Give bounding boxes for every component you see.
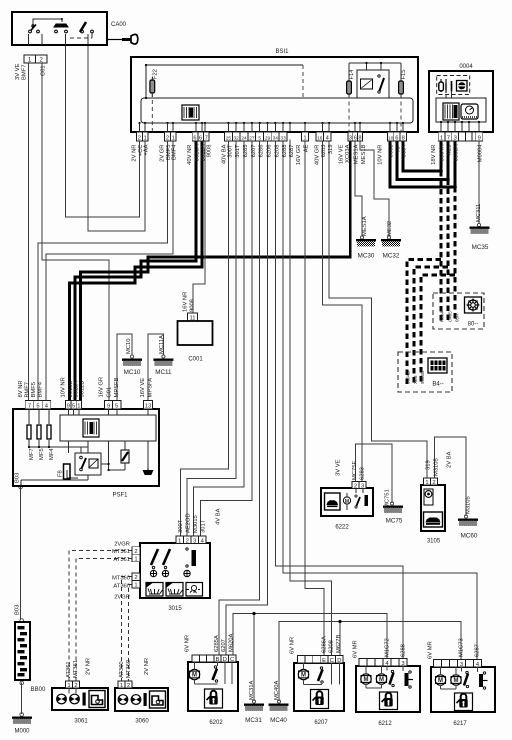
svg-text:80--: 80-- xyxy=(468,322,479,328)
svg-text:6202: 6202 xyxy=(209,720,223,726)
svg-text:2: 2 xyxy=(186,538,189,544)
svg-text:C01: C01 xyxy=(107,387,113,398)
svg-text:9005B: 9005B xyxy=(420,371,425,384)
svg-text:B03: B03 xyxy=(15,605,21,615)
svg-text:MC35: MC35 xyxy=(472,244,489,251)
svg-text:ME32: ME32 xyxy=(387,221,393,236)
svg-text:MT360: MT360 xyxy=(112,575,130,581)
svg-text:9005: 9005 xyxy=(389,145,395,158)
svg-text:M1C72: M1C72 xyxy=(385,638,391,657)
svg-text:6V NR: 6V NR xyxy=(185,635,191,652)
svg-text:9008: 9008 xyxy=(207,145,213,158)
svg-text:3105: 3105 xyxy=(427,539,441,545)
svg-text:10V NR: 10V NR xyxy=(378,145,384,165)
svg-text:27: 27 xyxy=(249,135,255,141)
svg-text:6222: 6222 xyxy=(335,525,349,531)
svg-text:7: 7 xyxy=(28,404,31,410)
svg-text:BMF4: BMF4 xyxy=(172,144,178,160)
svg-text:MT361: MT361 xyxy=(73,660,79,678)
svg-text:25: 25 xyxy=(226,135,232,141)
svg-text:34: 34 xyxy=(273,135,279,141)
svg-text:MF4: MF4 xyxy=(49,448,55,460)
svg-text:F22: F22 xyxy=(153,69,159,79)
svg-text:3: 3 xyxy=(193,538,196,544)
svg-text:3: 3 xyxy=(460,662,463,668)
svg-text:F14: F14 xyxy=(349,69,355,80)
svg-text:2VGR: 2VGR xyxy=(114,595,130,601)
svg-text:F15: F15 xyxy=(401,70,407,80)
svg-text:MC311: MC311 xyxy=(476,204,482,222)
svg-text:7: 7 xyxy=(205,135,208,141)
svg-text:6286A: 6286A xyxy=(322,636,328,653)
svg-text:1: 1 xyxy=(303,135,306,141)
svg-text:16V VE: 16V VE xyxy=(339,144,345,164)
svg-text:6288: 6288 xyxy=(282,145,288,158)
svg-text:6: 6 xyxy=(354,135,357,141)
svg-text:3: 3 xyxy=(401,661,404,667)
svg-text:6212: 6212 xyxy=(378,721,392,727)
svg-text:6208: 6208 xyxy=(274,145,280,158)
svg-text:MF5: MF5 xyxy=(39,448,45,460)
svg-text:MC40: MC40 xyxy=(270,717,287,724)
svg-text:MT361: MT361 xyxy=(112,549,130,555)
svg-text:1: 1 xyxy=(425,480,428,486)
svg-text:2: 2 xyxy=(134,549,137,555)
svg-text:33: 33 xyxy=(280,135,286,141)
svg-text:4V BA: 4V BA xyxy=(216,508,222,525)
svg-text:6287: 6287 xyxy=(289,145,295,158)
svg-text:301T: 301T xyxy=(235,144,241,158)
svg-text:9005A: 9005A xyxy=(454,144,460,161)
svg-text:MC10: MC10 xyxy=(126,339,132,354)
svg-text:6206: 6206 xyxy=(267,145,273,158)
svg-text:M620A: M620A xyxy=(229,633,235,652)
svg-text:1: 1 xyxy=(134,557,137,563)
svg-text:MC10: MC10 xyxy=(124,369,141,376)
svg-text:2V NR: 2V NR xyxy=(144,658,150,675)
svg-text:D: D xyxy=(337,658,341,664)
svg-text:MC75: MC75 xyxy=(386,518,403,525)
svg-text:BMF7: BMF7 xyxy=(22,65,28,80)
svg-text:2: 2 xyxy=(166,135,169,141)
svg-text:9004B: 9004B xyxy=(406,371,411,384)
svg-text:AE2OD: AE2OD xyxy=(186,513,192,533)
svg-text:MPSFB: MPSFB xyxy=(114,377,120,397)
svg-text:M3105: M3105 xyxy=(434,458,440,476)
svg-text:29: 29 xyxy=(265,135,271,141)
svg-text:6: 6 xyxy=(395,135,398,141)
svg-text:6V MR: 6V MR xyxy=(428,641,434,659)
svg-text:BB00: BB00 xyxy=(31,687,46,693)
svg-text:MC31A: MC31A xyxy=(249,681,255,700)
svg-text:C: C xyxy=(330,658,334,664)
svg-text:40V GR: 40V GR xyxy=(315,145,321,166)
svg-text:2V GR: 2V GR xyxy=(160,145,166,162)
svg-text:9: 9 xyxy=(107,404,110,410)
svg-text:AT361: AT361 xyxy=(113,557,130,563)
svg-text:1: 1 xyxy=(120,683,123,689)
svg-text:3061: 3061 xyxy=(74,719,88,725)
svg-text:PSF1: PSF1 xyxy=(112,493,128,499)
svg-text:MES1B: MES1B xyxy=(361,144,367,164)
svg-text:9004A: 9004A xyxy=(440,144,446,161)
svg-text:05A: 05A xyxy=(455,314,460,322)
svg-text:1: 1 xyxy=(178,538,181,544)
svg-text:MC11A: MC11A xyxy=(159,335,165,354)
svg-text:0004: 0004 xyxy=(459,64,473,70)
svg-text:XE1: XE1 xyxy=(447,145,453,156)
svg-text:B4--: B4-- xyxy=(432,382,443,388)
svg-text:MC751: MC751 xyxy=(385,489,391,508)
svg-text:3015: 3015 xyxy=(168,606,182,612)
svg-text:C405: C405 xyxy=(448,311,453,322)
svg-text:7: 7 xyxy=(447,135,450,141)
svg-text:5: 5 xyxy=(36,404,39,410)
svg-text:6283: 6283 xyxy=(360,467,366,480)
svg-text:5: 5 xyxy=(72,404,75,410)
svg-text:319: 319 xyxy=(328,145,334,155)
svg-text:2: 2 xyxy=(127,683,130,689)
svg-text:16V VE: 16V VE xyxy=(140,378,146,398)
svg-text:5: 5 xyxy=(115,404,118,410)
svg-text:18V NR: 18V NR xyxy=(431,145,437,165)
svg-text:BMF4: BMF4 xyxy=(38,381,44,397)
svg-text:M000: M000 xyxy=(14,729,30,735)
svg-text:8: 8 xyxy=(358,135,361,141)
svg-text:16V GR: 16V GR xyxy=(296,145,302,166)
svg-text:AT361: AT361 xyxy=(66,661,72,678)
svg-text:1: 1 xyxy=(143,135,146,141)
svg-text:6V NR: 6V NR xyxy=(290,637,296,654)
svg-text:2: 2 xyxy=(134,575,137,581)
svg-text:6207: 6207 xyxy=(251,145,257,158)
svg-text:16V NR: 16V NR xyxy=(183,292,189,312)
svg-text:BSI1: BSI1 xyxy=(275,49,289,55)
svg-text:40V NR: 40V NR xyxy=(187,145,193,165)
svg-text:MT360: MT360 xyxy=(126,660,132,678)
svg-text:6283: 6283 xyxy=(321,145,327,158)
svg-text:16: 16 xyxy=(317,135,323,141)
svg-text:AT360: AT360 xyxy=(119,661,125,678)
svg-text:6217: 6217 xyxy=(453,721,467,727)
svg-text:10: 10 xyxy=(388,135,394,141)
svg-text:1: 1 xyxy=(172,135,175,141)
svg-text:319: 319 xyxy=(426,460,432,470)
svg-text:2: 2 xyxy=(432,480,435,486)
svg-text:XE3: XE3 xyxy=(413,375,418,384)
svg-text:6285A: 6285A xyxy=(214,635,220,652)
svg-text:AE: AE xyxy=(304,144,310,152)
svg-text:BMF7: BMF7 xyxy=(25,382,31,397)
svg-text:+AA: +AA xyxy=(144,144,150,155)
svg-text:MF7: MF7 xyxy=(29,448,35,460)
svg-text:3V VE: 3V VE xyxy=(15,63,21,80)
svg-text:MC75F: MC75F xyxy=(352,461,358,480)
svg-text:E: E xyxy=(322,658,326,664)
svg-text:MC31: MC31 xyxy=(245,717,262,724)
svg-text:3060: 3060 xyxy=(135,719,149,725)
svg-text:CA00: CA00 xyxy=(111,22,127,28)
svg-text:C01: C01 xyxy=(41,65,47,76)
svg-text:R304: R304 xyxy=(440,311,445,322)
svg-text:MC11: MC11 xyxy=(155,369,172,376)
svg-text:6286: 6286 xyxy=(259,145,265,158)
svg-text:1: 1 xyxy=(440,135,443,141)
svg-text:MC30: MC30 xyxy=(358,253,375,260)
svg-text:32: 32 xyxy=(234,135,240,141)
svg-text:F8: F8 xyxy=(58,470,64,477)
svg-text:2V NR: 2V NR xyxy=(132,145,138,162)
svg-text:2: 2 xyxy=(138,135,141,141)
svg-text:9008: 9008 xyxy=(190,299,196,312)
svg-text:MES1A: MES1A xyxy=(362,216,368,236)
svg-text:5: 5 xyxy=(258,135,261,141)
svg-text:16V GR: 16V GR xyxy=(99,377,105,398)
svg-text:300T: 300T xyxy=(227,144,233,158)
svg-text:MC60: MC60 xyxy=(461,533,478,540)
svg-text:9: 9 xyxy=(478,135,481,141)
svg-text:6: 6 xyxy=(199,135,202,141)
svg-text:6288: 6288 xyxy=(401,644,407,657)
svg-text:9012B: 9012B xyxy=(80,381,86,398)
svg-text:XC03A: XC03A xyxy=(345,144,351,163)
svg-text:MC40A: MC40A xyxy=(274,681,280,700)
svg-text:300T: 300T xyxy=(178,519,184,533)
svg-text:2V NR: 2V NR xyxy=(86,658,92,675)
svg-text:6285: 6285 xyxy=(243,145,249,158)
svg-text:10V NR: 10V NR xyxy=(61,377,67,397)
svg-text:6207: 6207 xyxy=(314,720,328,726)
svg-text:6V MR: 6V MR xyxy=(353,640,359,658)
svg-text:B03: B03 xyxy=(15,473,21,483)
svg-text:MPSFA: MPSFA xyxy=(148,378,154,398)
svg-text:2VGR: 2VGR xyxy=(114,542,130,548)
svg-text:3V VE: 3V VE xyxy=(336,459,342,476)
svg-text:BMF5: BMF5 xyxy=(31,382,37,397)
svg-text:3: 3 xyxy=(454,135,457,141)
svg-text:8: 8 xyxy=(402,135,405,141)
svg-text:301T: 301T xyxy=(201,519,207,533)
svg-text:1: 1 xyxy=(77,404,80,410)
svg-text:AT360: AT360 xyxy=(113,583,130,589)
svg-text:C001: C001 xyxy=(188,357,203,363)
svg-text:13: 13 xyxy=(145,404,151,410)
svg-text:24: 24 xyxy=(241,135,247,141)
svg-text:6287: 6287 xyxy=(475,644,481,657)
svg-text:M3105: M3105 xyxy=(466,496,472,514)
svg-text:M627B: M627B xyxy=(336,634,342,653)
svg-text:MES1A: MES1A xyxy=(354,144,360,164)
svg-text:9: 9 xyxy=(67,404,70,410)
svg-text:2V BA: 2V BA xyxy=(447,451,453,468)
svg-text:M0004: M0004 xyxy=(478,144,484,163)
svg-text:MC32: MC32 xyxy=(383,253,400,260)
svg-text:M1C73: M1C73 xyxy=(459,638,465,657)
svg-text:6208: 6208 xyxy=(329,640,335,653)
svg-text:M: M xyxy=(345,499,349,505)
svg-text:9004: 9004 xyxy=(402,144,408,158)
svg-text:3: 3 xyxy=(349,135,352,141)
svg-text:6: 6 xyxy=(193,135,196,141)
svg-text:M3015: M3015 xyxy=(193,515,199,533)
svg-text:6207: 6207 xyxy=(221,639,227,652)
svg-text:1: 1 xyxy=(134,583,137,589)
svg-text:8V NR: 8V NR xyxy=(18,380,24,397)
